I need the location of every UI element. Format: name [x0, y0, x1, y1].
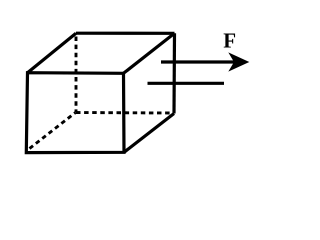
cube top-left depth edge (FTL to BTL)	[28, 33, 77, 72]
force arrow F head	[228, 52, 249, 71]
force arrow F shaft	[161, 60, 241, 63]
cube back-right vertical edge (BTR to BBR)	[172, 33, 176, 113]
cube bottom-right depth edge (FBR to BBR)	[124, 114, 174, 153]
svg-text:F: F	[223, 29, 236, 53]
cube top-right depth edge (FTR to BTR)	[124, 33, 175, 73]
cube front face	[26, 73, 124, 153]
cube hidden back-left vertical edge (dashed, BTL to BBL)	[75, 37, 78, 113]
cube back-top edge (BTL to BTR)	[76, 32, 175, 35]
cube hidden bottom-left depth edge (dashed, FBL to BBL)	[30, 113, 76, 149]
cube hidden back-bottom edge (dashed, BBL to BBR)	[76, 111, 170, 114]
lower horizontal line	[148, 82, 225, 85]
